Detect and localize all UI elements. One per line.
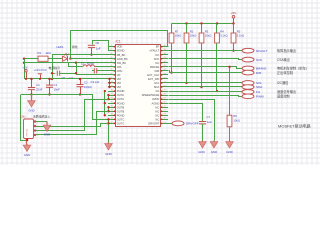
wire net SW_BK bbox=[23, 62, 115, 64]
LED1 indicator diode bbox=[57, 45, 78, 61]
svg-text:OUTB: OUTB bbox=[117, 109, 125, 113]
svg-text:22uF: 22uF bbox=[36, 88, 43, 92]
svg-text:GND: GND bbox=[24, 153, 30, 157]
capacitor C5 (charge pump) bbox=[91, 68, 100, 84]
wire FB_BK branch down bbox=[51, 55, 53, 81]
connector CN1 pins 1-4 bbox=[34, 120, 40, 136]
svg-text:OUTA: OUTA bbox=[117, 93, 124, 97]
svg-text:CPH: CPH bbox=[117, 69, 123, 73]
svg-text:速度信号输出: 速度信号输出 bbox=[277, 89, 296, 94]
wire phase B OUTB to CN1 pin4 bbox=[36, 112, 109, 135]
svg-text:+5V: +5V bbox=[231, 11, 236, 15]
ground symbol under AVDD wire bbox=[210, 141, 218, 154]
svg-text:nFAULT: nFAULT bbox=[150, 49, 160, 53]
wire net CPL with corner bbox=[69, 63, 116, 67]
wire DRVOFF stub bbox=[168, 123, 172, 125]
svg-text:L2: L2 bbox=[81, 62, 85, 66]
wire net FB_BK bbox=[52, 54, 115, 56]
wire ground rail under caps bbox=[21, 94, 93, 96]
resistor R2 10kΩ pull-up bbox=[184, 24, 196, 44]
wire net AGND bbox=[169, 104, 203, 122]
svg-text:AVDD: AVDD bbox=[152, 97, 159, 101]
svg-text:PWM: PWM bbox=[256, 95, 264, 99]
IC U1 reference designator IC1 bbox=[116, 40, 121, 44]
power flag +12V/VCC bbox=[34, 68, 47, 80]
svg-text:PGND: PGND bbox=[117, 101, 125, 105]
capacitor C2 100nF bbox=[76, 78, 92, 96]
wire vertical from GND_BK to VM rail bbox=[24, 59, 26, 79]
wire +5V pull-up bus bbox=[172, 23, 234, 25]
svg-text:C1: C1 bbox=[54, 83, 58, 87]
svg-text:CP: CP bbox=[117, 73, 121, 77]
ground symbol below cap rail bbox=[28, 95, 36, 113]
wire R5 lead to nFAULT net bbox=[232, 43, 234, 52]
svg-text:10kΩ: 10kΩ bbox=[233, 119, 240, 123]
svg-text:GND: GND bbox=[105, 152, 111, 156]
power flag +5V bbox=[231, 11, 236, 23]
port DRVOFF bbox=[172, 121, 199, 126]
capacitor C6 1uF bbox=[88, 41, 101, 50]
svg-text:NC: NC bbox=[155, 53, 159, 57]
wire net PWM bbox=[169, 96, 243, 97]
svg-text:AGND: AGND bbox=[152, 101, 160, 105]
svg-text:GND_BK: GND_BK bbox=[117, 57, 128, 61]
svg-text:1uF: 1uF bbox=[207, 120, 212, 124]
wire BRAKE to R6 bbox=[228, 66, 230, 116]
wire R6 to ground bbox=[229, 127, 231, 141]
svg-text:NC: NC bbox=[155, 117, 159, 121]
svg-text:SDA: SDA bbox=[154, 85, 160, 89]
wire VM pins tie bbox=[108, 78, 110, 88]
svg-text:C6: C6 bbox=[96, 41, 100, 45]
svg-text:10kΩ: 10kΩ bbox=[190, 34, 197, 38]
wire net CP bbox=[77, 63, 115, 75]
svg-text:正反转控制: 正反转控制 bbox=[277, 70, 293, 75]
svg-text:SCK: SCK bbox=[154, 57, 160, 61]
svg-text:GND: GND bbox=[226, 150, 232, 154]
resistor R6 10kΩ pull-down bbox=[227, 114, 240, 127]
svg-text:R6: R6 bbox=[233, 114, 237, 118]
wire OUTA pins tie bbox=[107, 94, 109, 100]
inductor L2 47uH bbox=[81, 62, 94, 67]
svg-text:C4: C4 bbox=[36, 83, 40, 87]
wire OUTC to ground arrow bbox=[107, 122, 109, 143]
svg-text:GND: GND bbox=[28, 109, 34, 113]
svg-text:5.1kΩ: 5.1kΩ bbox=[237, 34, 244, 38]
port SDA with label bbox=[242, 85, 263, 90]
svg-text:FB_BK: FB_BK bbox=[117, 53, 126, 57]
svg-text:故障指示输出: 故障指示输出 bbox=[277, 48, 296, 53]
svg-text:GND: GND bbox=[198, 150, 204, 154]
wire net FG bbox=[169, 91, 243, 93]
svg-text:EXT_WD: EXT_WD bbox=[148, 77, 159, 81]
svg-text:BRAKE: BRAKE bbox=[150, 65, 159, 69]
svg-text:绿色: 绿色 bbox=[72, 45, 78, 49]
wire C2 ground branch to OUTC bbox=[93, 95, 109, 120]
svg-text:1uF: 1uF bbox=[96, 47, 101, 51]
wire C6 bottom to FB_BK net bbox=[90, 48, 92, 56]
svg-text:PGND: PGND bbox=[117, 89, 125, 93]
wire net SGND from C6 bbox=[93, 41, 115, 51]
svg-text:1uF: 1uF bbox=[95, 80, 100, 84]
svg-text:CPL: CPL bbox=[117, 65, 123, 69]
svg-text:10kΩ: 10kΩ bbox=[175, 34, 182, 38]
svg-text:C2: C2 bbox=[84, 80, 88, 84]
wire CN1 pin1 to ground bbox=[36, 121, 47, 123]
ground symbol below IC bbox=[105, 143, 113, 156]
capacitor C1 10uF bbox=[46, 78, 60, 96]
port BRAKE with label bbox=[242, 66, 309, 71]
wire OUTB pins tie bbox=[107, 106, 109, 112]
svg-text:SCL: SCL bbox=[154, 81, 160, 85]
wire net DIR bbox=[169, 71, 243, 73]
svg-text:FG: FG bbox=[156, 89, 160, 93]
svg-text:NC: NC bbox=[155, 113, 159, 117]
svg-text:47uH: 47uH bbox=[87, 62, 94, 66]
capacitor C3 series branch bbox=[52, 71, 77, 80]
svg-text:FG: FG bbox=[256, 90, 261, 94]
resistor R5 5.1kΩ pull-up bbox=[231, 24, 244, 44]
port DIR with label bbox=[242, 70, 293, 75]
svg-text:LED1: LED1 bbox=[57, 45, 64, 49]
wire R4 lead to FG net bbox=[216, 43, 218, 92]
connector CN1 labels bbox=[20, 114, 50, 119]
svg-text:NFAULT: NFAULT bbox=[256, 49, 268, 53]
resistor R3 10kΩ pull-up bbox=[199, 24, 211, 44]
svg-text:OUTA: OUTA bbox=[117, 97, 124, 101]
background grid bbox=[0, 0, 320, 165]
ground symbol at CN1 pin1 bbox=[43, 122, 51, 137]
svg-text:DIR: DIR bbox=[155, 69, 160, 73]
wire R3 lead to SDA net bbox=[200, 43, 202, 88]
svg-text:NC: NC bbox=[155, 61, 159, 65]
wire CN1 shield to ground bbox=[26, 141, 28, 145]
wire net AVDD bbox=[169, 100, 215, 141]
ground symbol below CN1 bbox=[23, 144, 31, 157]
resistor R4 5.1kΩ pull-up bbox=[215, 24, 228, 44]
svg-text:+5V: +5V bbox=[23, 66, 28, 70]
svg-text:SGND: SGND bbox=[117, 49, 125, 53]
svg-text:PGND: PGND bbox=[117, 113, 125, 117]
resistor R7 10kΩ pull-up bbox=[169, 24, 181, 44]
IC U1 left pins with numbers and names bbox=[108, 45, 128, 126]
wire PGND pins tie bbox=[104, 90, 106, 117]
IC U1 right pins with numbers and names bbox=[142, 45, 168, 126]
ground symbol under C7 bbox=[198, 141, 206, 154]
label power indicator bbox=[49, 65, 61, 70]
wire phase A OUTA to CN1 pin3 bbox=[36, 100, 109, 131]
schematic title text bbox=[278, 123, 311, 129]
svg-text:OUTC: OUTC bbox=[117, 117, 125, 121]
wire R7 lead to DIR net bbox=[170, 43, 172, 74]
svg-text:XH2.54: XH2.54 bbox=[27, 128, 29, 136]
svg-text:C7: C7 bbox=[207, 115, 211, 119]
svg-text:CN1: CN1 bbox=[20, 115, 26, 119]
svg-text:无刷电机接入: 无刷电机接入 bbox=[33, 114, 50, 119]
wire ground rail to CN1 loop bbox=[21, 95, 27, 141]
svg-text:EP: EP bbox=[156, 45, 160, 49]
wire phase C OUTC to CN1 pin2 bbox=[36, 124, 109, 127]
svg-text:100nF: 100nF bbox=[84, 85, 92, 89]
capacitor C4 22uF bbox=[28, 78, 43, 96]
svg-text:SW_BK: SW_BK bbox=[117, 61, 127, 65]
ground symbol under R6 bbox=[226, 141, 234, 154]
svg-text:NC: NC bbox=[155, 109, 159, 113]
svg-text:SDA: SDA bbox=[256, 85, 263, 89]
wire net CPH bbox=[92, 70, 115, 72]
svg-text:GND: GND bbox=[211, 150, 217, 154]
wire net nFAULT bbox=[168, 50, 242, 52]
svg-text:速度控制: 速度控制 bbox=[277, 94, 290, 99]
wire net BRAKE bbox=[169, 67, 243, 69]
svg-text:MOSFET驱动电路: MOSFET驱动电路 bbox=[278, 123, 311, 129]
port SCK with label bbox=[242, 57, 290, 62]
svg-text:10uF: 10uF bbox=[54, 88, 61, 92]
wire EP ground rail across top bbox=[71, 31, 169, 59]
svg-text:5.1kΩ: 5.1kΩ bbox=[220, 34, 227, 38]
svg-text:+12V/VCC: +12V/VCC bbox=[34, 68, 47, 72]
wire OUTC pins tie bbox=[107, 118, 109, 124]
wire net SCL bbox=[168, 82, 242, 84]
wire R2 lead to SCL net bbox=[185, 43, 187, 84]
svg-text:EXT_CLK: EXT_CLK bbox=[147, 73, 159, 77]
wire net SDA bbox=[168, 86, 242, 88]
connector CN1 body bbox=[24, 119, 34, 139]
svg-text:I2C通信: I2C通信 bbox=[277, 80, 289, 85]
svg-text:SPEED/WAKE: SPEED/WAKE bbox=[142, 93, 160, 97]
resistor R1 1kΩ bbox=[38, 51, 51, 61]
port PWM with label bbox=[242, 94, 290, 99]
svg-text:SCK: SCK bbox=[256, 58, 263, 62]
svg-text:NC: NC bbox=[155, 105, 159, 109]
svg-text:1kΩ: 1kΩ bbox=[46, 51, 51, 55]
svg-text:CSA输出: CSA输出 bbox=[277, 57, 290, 62]
port FG with label bbox=[242, 89, 296, 94]
svg-text:IC1: IC1 bbox=[116, 40, 121, 44]
svg-text:电源指示: 电源指示 bbox=[49, 65, 61, 70]
port SCL with label bbox=[242, 80, 289, 85]
wire net GND_BK (power LED branch) bbox=[23, 58, 115, 60]
svg-text:GND: GND bbox=[44, 133, 50, 137]
capacitor C7 1uF bbox=[199, 115, 212, 124]
svg-text:OUTC: OUTC bbox=[117, 121, 125, 125]
junction dots on +5V bus bbox=[185, 22, 234, 24]
svg-text:DRVOFF: DRVOFF bbox=[148, 121, 159, 125]
svg-text:VDD: VDD bbox=[117, 45, 123, 49]
wire C7 to ground bbox=[202, 124, 204, 141]
svg-text:DIR: DIR bbox=[256, 71, 262, 75]
wire net SCK bbox=[169, 59, 243, 60]
svg-text:R1: R1 bbox=[38, 51, 42, 55]
IC U1 body bbox=[116, 45, 161, 127]
power flag +5V left bbox=[23, 66, 28, 80]
svg-text:10kΩ: 10kΩ bbox=[205, 34, 212, 38]
connector CN1 shield pad bbox=[26, 139, 28, 141]
svg-text:OUTB: OUTB bbox=[117, 105, 125, 109]
wire net VM rail bbox=[24, 78, 110, 80]
junction node LED cathode to rail bbox=[69, 57, 71, 59]
svg-text:DRVOFF: DRVOFF bbox=[186, 122, 199, 126]
port NFAULT with label bbox=[242, 48, 296, 53]
